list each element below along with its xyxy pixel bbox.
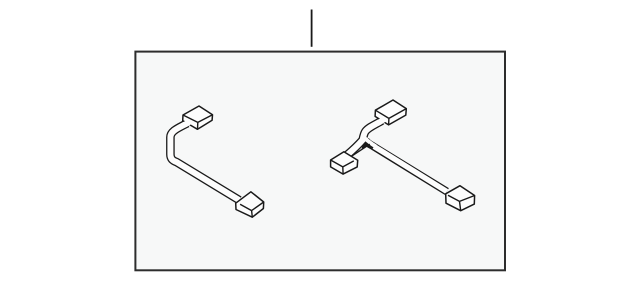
- connector C3 (harness 2 top): [375, 100, 406, 125]
- connector C1 (harness 1 top): [183, 106, 213, 129]
- harness 1 wire outer: [170, 123, 239, 200]
- fork wedge: [362, 141, 369, 149]
- harness 1 wire entry stub over C1: [184, 121, 190, 125]
- connector C5 (harness 2 bottom right): [446, 186, 475, 211]
- parts box frame: [135, 52, 505, 271]
- leader line: [311, 10, 313, 47]
- harness 1 wire core: [170, 123, 239, 200]
- harness 2 branch wire outer (fork to C5): [366, 140, 447, 191]
- harness 2 branch wire core: [374, 146, 447, 191]
- connector C4 (harness 2 left): [331, 152, 358, 174]
- connector C2 (harness 1 bottom): [236, 192, 264, 217]
- harness 2 main wire core: [347, 121, 382, 156]
- branch upper white flow: [364, 137, 376, 146]
- junction web line: [351, 144, 370, 156]
- harness 2 main wire outer (C3 to C4): [347, 121, 382, 156]
- harness 2 wire entry stub over C3: [379, 119, 385, 123]
